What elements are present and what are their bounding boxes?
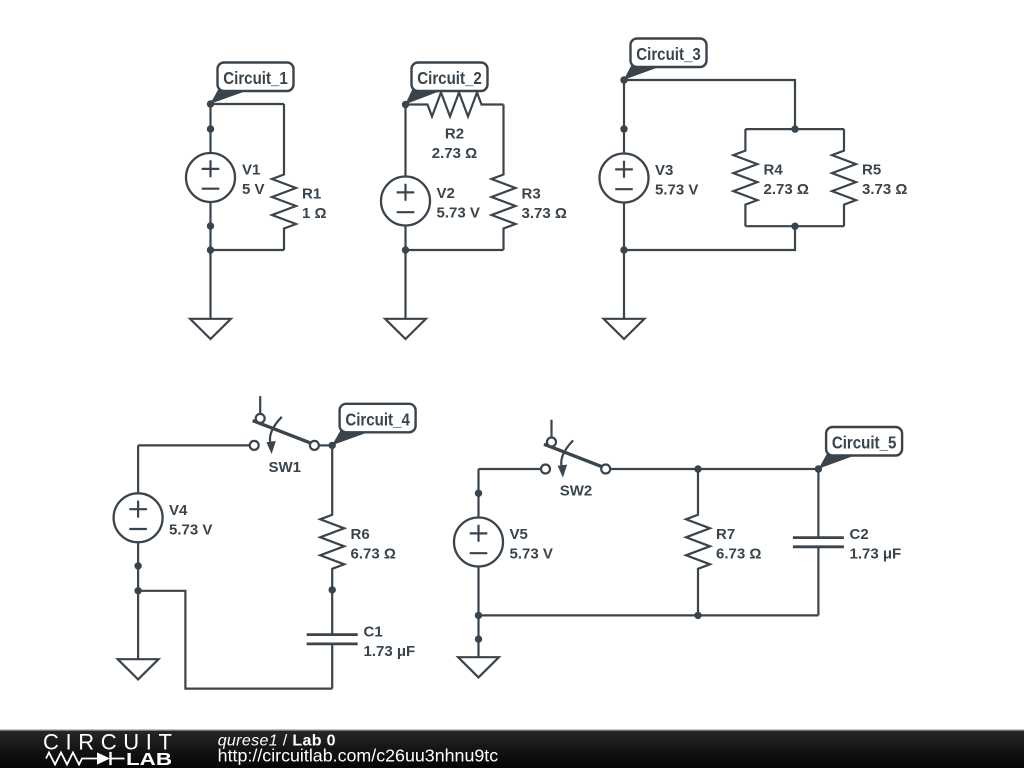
label R1 value bbox=[302, 186, 327, 223]
capacitor C1 bbox=[307, 590, 358, 689]
svg-text:5.73 V: 5.73 V bbox=[510, 546, 553, 563]
node: parallel top junction bbox=[791, 125, 798, 132]
wire: circuit 4 left rail bbox=[137, 445, 139, 590]
svg-text:1.73 μF: 1.73 μF bbox=[364, 643, 416, 660]
label C1 value bbox=[364, 623, 416, 660]
label R5 value bbox=[862, 162, 907, 199]
svg-text:SW2: SW2 bbox=[560, 483, 593, 500]
wire: circuit 5 left rail bbox=[477, 469, 479, 615]
wire: circuit 1 left rail bbox=[209, 104, 211, 250]
label V3 value bbox=[655, 162, 698, 199]
resistor R2 bbox=[406, 93, 504, 117]
svg-text:R3: R3 bbox=[522, 186, 541, 203]
svg-text:5 V: 5 V bbox=[242, 181, 265, 198]
node: R7 bottom junction bbox=[694, 612, 701, 619]
switch SW2 bbox=[541, 420, 610, 500]
node: R6-C1 junction bbox=[329, 586, 336, 593]
logo resistor-diode glyph bbox=[46, 752, 125, 765]
node: parallel bottom junction bbox=[791, 223, 798, 230]
svg-text:Circuit_1: Circuit_1 bbox=[223, 68, 288, 88]
label V4 value bbox=[169, 502, 212, 539]
node: circuit 3 bottom-left junction bbox=[620, 246, 627, 253]
node: circuit 4 ground junction bbox=[134, 587, 141, 594]
ground: circuit 4 bbox=[118, 591, 159, 680]
svg-text:V2: V2 bbox=[437, 185, 455, 202]
wire: circuit 1 top rail bbox=[211, 103, 285, 105]
label C2 value bbox=[850, 526, 902, 563]
svg-text:SW1: SW1 bbox=[268, 459, 301, 476]
voltage source V1 bbox=[186, 153, 235, 202]
wire: circuit 3 left rail bbox=[623, 80, 625, 250]
resistor R5 bbox=[832, 129, 856, 226]
svg-text:Circuit_5: Circuit_5 bbox=[832, 433, 897, 453]
node: V3 top terminal bbox=[620, 125, 627, 132]
svg-text:C1: C1 bbox=[364, 623, 383, 640]
svg-text:V5: V5 bbox=[510, 526, 528, 543]
node: circuit 1 bottom-left junction bbox=[207, 246, 214, 253]
svg-text:V1: V1 bbox=[242, 162, 260, 179]
callout label Circuit_1 bbox=[210, 63, 293, 104]
node: C2 top junction bbox=[815, 465, 822, 472]
wire: circuit 5 top rail bbox=[610, 468, 818, 470]
svg-text:6.73 Ω: 6.73 Ω bbox=[716, 546, 761, 563]
wire: circuit 1 bottom rail bbox=[211, 249, 285, 251]
node: circuit 2 top-left junction bbox=[402, 101, 409, 108]
switch SW1 bbox=[250, 396, 319, 476]
svg-text:2.73 Ω: 2.73 Ω bbox=[432, 145, 477, 162]
node: SW1 output junction bbox=[329, 442, 336, 449]
svg-text:5.73 V: 5.73 V bbox=[655, 182, 698, 199]
resistor R7 bbox=[686, 469, 710, 615]
svg-text:R1: R1 bbox=[302, 186, 321, 203]
node: circuit 1 top-left junction bbox=[207, 100, 214, 107]
svg-text:LAB: LAB bbox=[126, 749, 172, 768]
ground: circuit 1 bbox=[190, 250, 231, 339]
svg-text:1.73 μF: 1.73 μF bbox=[850, 546, 902, 563]
wire: circuit 4 bottom return bbox=[138, 591, 332, 689]
label R7 value bbox=[716, 526, 761, 563]
callout label Circuit_3 bbox=[624, 39, 707, 80]
svg-text:R4: R4 bbox=[764, 162, 784, 179]
node: R7 top junction bbox=[694, 465, 701, 472]
wire: SW1 to node bbox=[319, 444, 333, 446]
svg-text:5.73 V: 5.73 V bbox=[169, 521, 212, 538]
wire: parallel top bus bbox=[745, 128, 844, 130]
ground: circuit 3 bbox=[604, 250, 645, 339]
wire: V4 to SW1 bbox=[138, 444, 250, 446]
node: V1 top terminal bbox=[207, 125, 214, 132]
node: V1 bottom terminal bbox=[207, 222, 214, 229]
svg-text:5.73 V: 5.73 V bbox=[437, 205, 480, 222]
wire: circuit 5 bottom rail bbox=[479, 614, 819, 616]
footer bar background bbox=[0, 730, 1024, 768]
callout label Circuit_2 bbox=[405, 63, 487, 105]
node: V5 top terminal bbox=[475, 490, 482, 497]
voltage source V3 bbox=[600, 154, 649, 203]
wire: V5 to SW2 bbox=[479, 468, 542, 470]
wire: circuit 2 left rail bbox=[404, 105, 406, 251]
svg-text:Circuit_4: Circuit_4 bbox=[345, 409, 410, 429]
label R3 value bbox=[522, 186, 567, 223]
resistor R1 bbox=[272, 104, 296, 250]
ground: circuit 2 bbox=[385, 250, 426, 339]
svg-text:V3: V3 bbox=[655, 162, 673, 179]
resistor R4 bbox=[733, 129, 757, 226]
voltage source V4 bbox=[114, 493, 163, 542]
svg-text:3.73 Ω: 3.73 Ω bbox=[862, 181, 907, 198]
label R4 value bbox=[764, 162, 809, 199]
node: V4 bottom terminal bbox=[134, 562, 141, 569]
callout label Circuit_4 bbox=[332, 404, 416, 445]
label V5 value bbox=[510, 526, 553, 563]
node: ground terminal circuit 5 bbox=[475, 635, 482, 642]
wire: circuit 2 bottom rail bbox=[406, 249, 504, 251]
svg-text:R2: R2 bbox=[445, 126, 464, 143]
svg-text:R5: R5 bbox=[862, 162, 881, 179]
ground: circuit 5 bbox=[458, 615, 499, 677]
label V1 value bbox=[242, 162, 265, 199]
voltage source V5 bbox=[454, 518, 503, 567]
svg-text:C2: C2 bbox=[850, 526, 869, 543]
label V2 value bbox=[437, 185, 480, 222]
node: circuit 2 bottom-left junction bbox=[402, 246, 409, 253]
svg-text:http://circuitlab.com/c26uu3nh: http://circuitlab.com/c26uu3nhnu9tc bbox=[218, 746, 499, 766]
node: circuit 3 top-left junction bbox=[620, 76, 627, 83]
callout label Circuit_5 bbox=[819, 427, 903, 469]
svg-text:R7: R7 bbox=[716, 526, 735, 543]
svg-text:V4: V4 bbox=[169, 502, 188, 519]
voltage source V2 bbox=[381, 177, 430, 226]
resistor R3 bbox=[492, 105, 516, 251]
svg-text:3.73 Ω: 3.73 Ω bbox=[522, 205, 567, 222]
wire: parallel bottom bus bbox=[745, 225, 844, 227]
resistor R6 bbox=[320, 445, 344, 590]
wire: circuit 3 bottom rail bbox=[624, 226, 795, 250]
wire: circuit 3 top rail bbox=[624, 80, 795, 129]
svg-text:1 Ω: 1 Ω bbox=[302, 205, 327, 222]
svg-text:Circuit_2: Circuit_2 bbox=[417, 68, 482, 88]
node: circuit 5 bottom-left junction bbox=[475, 612, 482, 619]
svg-text:2.73 Ω: 2.73 Ω bbox=[764, 181, 809, 198]
svg-text:R6: R6 bbox=[351, 526, 370, 543]
svg-text:6.73 Ω: 6.73 Ω bbox=[351, 545, 396, 562]
label R6 value bbox=[351, 526, 396, 563]
label R2 value bbox=[432, 126, 477, 163]
svg-text:Circuit_3: Circuit_3 bbox=[636, 44, 701, 64]
capacitor C2 bbox=[793, 469, 844, 615]
